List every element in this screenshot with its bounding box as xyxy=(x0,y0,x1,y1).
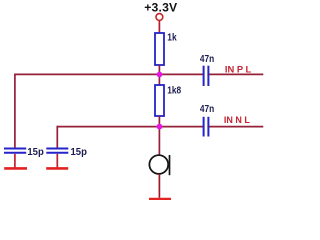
capacitor C3 47n plates xyxy=(204,66,209,86)
wire C2 to ground xyxy=(56,154,58,168)
svg-text:47n: 47n xyxy=(200,53,214,65)
wire node B down-left to C2 xyxy=(56,126,58,148)
microphone MK1 plate xyxy=(169,155,171,175)
power +3.3V label xyxy=(144,0,178,14)
ground symbol under mic xyxy=(149,198,171,200)
svg-text:15p: 15p xyxy=(71,146,87,158)
value 15p for C2 xyxy=(71,146,87,158)
node A junction xyxy=(157,72,163,78)
microphone MK1 body xyxy=(149,155,168,174)
svg-text:1k8: 1k8 xyxy=(167,84,181,96)
wire node A down-left to C1 xyxy=(14,74,16,148)
svg-text:+3.3V: +3.3V xyxy=(144,0,178,14)
value 15p for C1 xyxy=(27,146,43,158)
ground symbol under C2 xyxy=(46,167,68,170)
net label IN P L xyxy=(225,64,252,75)
wire R2 to node B and mic xyxy=(158,116,160,155)
node B junction xyxy=(157,124,163,130)
svg-text:IN N L: IN N L xyxy=(224,115,250,126)
wire mic to ground xyxy=(158,174,160,198)
wire C1 to ground xyxy=(14,154,16,168)
net label IN N L xyxy=(224,115,250,126)
capacitor C1 15p plates xyxy=(4,149,26,153)
power symbol circle xyxy=(156,14,163,21)
value 1k xyxy=(167,32,177,44)
svg-text:47n: 47n xyxy=(200,103,214,115)
wire horizontal net IN_N_L left segment xyxy=(57,126,204,128)
wire horizontal net IN_P_L left segment xyxy=(14,73,203,75)
capacitor C2 15p plates xyxy=(46,149,68,153)
resistor R1 xyxy=(155,33,164,65)
wire horizontal net IN_N_L right segment xyxy=(208,126,263,128)
value 47n for C4 xyxy=(200,103,214,115)
svg-text:1k: 1k xyxy=(167,32,177,44)
resistor R2 xyxy=(155,85,164,116)
ground symbol under C1 xyxy=(4,167,27,170)
svg-text:15p: 15p xyxy=(27,146,43,158)
wire horizontal net IN_P_L right segment xyxy=(208,73,263,75)
value 47n for C3 xyxy=(200,53,214,65)
wire R1 to node A xyxy=(158,65,160,85)
capacitor C4 47n plates xyxy=(204,117,209,137)
value 1k8 xyxy=(167,84,181,96)
svg-text:IN P L: IN P L xyxy=(225,64,252,75)
wire power to R1 xyxy=(158,21,160,34)
